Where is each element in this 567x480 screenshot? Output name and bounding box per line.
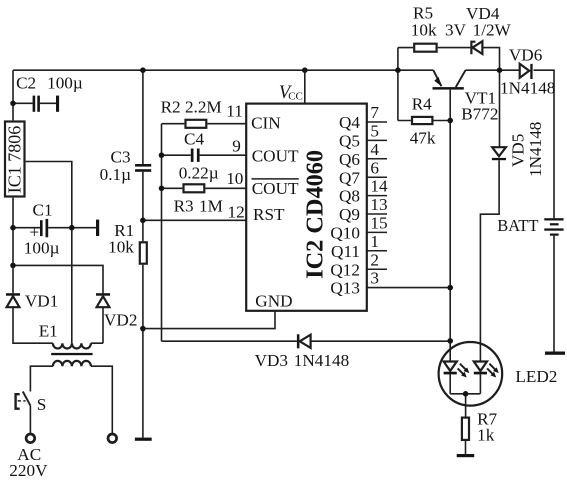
svg-text:10: 10 [226, 169, 243, 188]
voltage regulator IC1 7806 [5, 122, 25, 197]
zener diode VD4 [445, 4, 512, 54]
core [51, 353, 92, 355]
wire left rail upper [12, 70, 14, 120]
svg-text:Q12: Q12 [330, 260, 360, 279]
transformer E1 [39, 322, 93, 367]
wire C2 branch [13, 102, 56, 104]
wire R4 line [398, 120, 450, 122]
wire oscillator rail [161, 124, 163, 342]
svg-text:10k: 10k [411, 20, 437, 39]
svg-text:1N4148: 1N4148 [294, 351, 349, 370]
wire R2 line pin 11 [162, 123, 247, 125]
svg-text:IC1 7806: IC1 7806 [5, 126, 25, 194]
svg-text:C3: C3 [111, 148, 131, 167]
svg-text:5: 5 [370, 122, 379, 141]
LED element A [444, 362, 457, 371]
svg-text:1k: 1k [477, 426, 495, 445]
svg-text:1N4148: 1N4148 [500, 79, 555, 98]
svg-text:47k: 47k [410, 129, 436, 148]
wire VD6 to battery corner [534, 70, 555, 218]
svg-text:15: 15 [370, 214, 387, 233]
resistor R3 [174, 184, 223, 215]
wire R5 zener branch [398, 48, 500, 71]
svg-text:VD3: VD3 [255, 351, 288, 370]
svg-text:6: 6 [370, 158, 379, 177]
wire rectifier link [13, 265, 103, 293]
LED B arrows [489, 364, 495, 370]
wire VD5 branch [480, 70, 499, 361]
svg-text:VD6: VD6 [509, 46, 543, 65]
svg-text:Q9: Q9 [339, 205, 360, 224]
LED A arrows [460, 364, 466, 370]
diode VD5 [492, 122, 545, 177]
svg-text:B772: B772 [461, 105, 498, 124]
terminal left [26, 434, 35, 443]
svg-text:4: 4 [370, 140, 379, 159]
wire Vcc drop [304, 70, 306, 103]
svg-text:COUT: COUT [252, 147, 299, 166]
output pin stubs Q4-Q12 [367, 122, 387, 269]
pin labels Q4..Q13 [330, 113, 360, 298]
diode VD3 [255, 334, 350, 370]
wire C1 line [13, 227, 96, 229]
wire battery to ground [553, 236, 555, 352]
resistor R1 [108, 221, 147, 264]
svg-text:1M: 1M [199, 197, 223, 216]
svg-text:0.1µ: 0.1µ [100, 165, 131, 184]
wire C4 line pin 9 [162, 154, 247, 156]
svg-text:Q6: Q6 [339, 150, 360, 169]
pin numbers 7 5 4 6 14 13 15 1 2 3 [370, 103, 388, 288]
ground R7 [457, 454, 475, 457]
pin COUT-bar [252, 179, 299, 198]
wire VD1 to winding [13, 307, 53, 343]
svg-text:220V: 220V [9, 461, 48, 480]
capacitor C4 [179, 130, 219, 183]
capacitor C1 [24, 201, 99, 258]
svg-text:IC2 CD4060: IC2 CD4060 [301, 150, 328, 279]
wire collector to VD6 [466, 69, 520, 71]
svg-text:12: 12 [228, 202, 245, 221]
svg-text:E1: E1 [39, 322, 58, 341]
svg-text:Q10: Q10 [330, 224, 360, 243]
wire R4 rail [397, 48, 399, 121]
diode VD2 [96, 293, 137, 329]
svg-text:0.22µ: 0.22µ [179, 163, 219, 182]
svg-text:VD1: VD1 [25, 292, 58, 311]
svg-text:C4: C4 [184, 130, 204, 149]
diode VD1 [6, 292, 58, 311]
svg-text:1: 1 [370, 232, 379, 251]
ground left column [135, 438, 152, 441]
wire R3 line pin 10 [162, 187, 247, 189]
svg-text:GND: GND [255, 291, 292, 310]
svg-text:VD5: VD5 [509, 134, 528, 167]
svg-text:VD2: VD2 [104, 310, 137, 329]
capacitor C2 [16, 74, 83, 112]
resistor R5 [411, 4, 437, 52]
wire left rail lower [12, 198, 14, 294]
node Vcc label [279, 83, 303, 103]
svg-text:RST: RST [253, 205, 285, 224]
resistor R4 [410, 94, 436, 147]
LED element B [474, 362, 487, 371]
switch S [16, 392, 47, 415]
capacitor C3 [100, 148, 152, 184]
svg-text:Q4: Q4 [339, 113, 360, 132]
svg-text:C1: C1 [33, 201, 53, 220]
LED2 dual LED [439, 342, 558, 406]
svg-text:BATT: BATT [497, 216, 538, 235]
resistor R7 [462, 409, 498, 444]
svg-text:100µ: 100µ [47, 74, 83, 93]
wire GND pin to ground column [143, 311, 275, 329]
svg-text:C2: C2 [16, 74, 36, 93]
svg-text:2: 2 [370, 250, 379, 269]
terminal right [108, 434, 117, 443]
svg-text:LED2: LED2 [515, 367, 557, 386]
wire switch to terminal [29, 406, 31, 434]
wire primary leads [30, 366, 112, 433]
label AC 220V [9, 445, 48, 480]
wire top rail [13, 69, 433, 71]
svg-text:3V: 3V [445, 21, 467, 40]
primary winding [53, 361, 91, 366]
wire VT1 base column to LED [449, 90, 451, 362]
svg-text:14: 14 [370, 177, 388, 196]
svg-text:CIN: CIN [251, 113, 281, 132]
svg-text:Q11: Q11 [331, 242, 360, 261]
svg-text:Q7: Q7 [339, 168, 360, 187]
ground battery [545, 352, 565, 355]
wire R7 to ground [465, 441, 467, 454]
svg-text:R2 2.2M: R2 2.2M [161, 98, 222, 117]
svg-text:R3: R3 [174, 197, 194, 216]
wire IC1 output to transformer center tap [26, 162, 72, 344]
svg-text:13: 13 [370, 195, 387, 214]
wire VD3 line [162, 340, 451, 342]
svg-text:R4: R4 [412, 94, 432, 113]
svg-text:Q8: Q8 [339, 187, 360, 206]
diode VD6 [500, 46, 555, 98]
svg-text:9: 9 [232, 136, 241, 155]
svg-text:Q13: Q13 [330, 279, 360, 298]
svg-text:Q5: Q5 [339, 132, 360, 151]
svg-text:COUT: COUT [252, 179, 299, 198]
svg-text:CC: CC [288, 91, 303, 103]
wire RST line pin 12 [143, 219, 246, 221]
wire Q13 pin 3 output [367, 287, 450, 289]
svg-text:100µ: 100µ [24, 239, 60, 258]
svg-text:3: 3 [370, 269, 379, 288]
transistor VT1 B772 [433, 70, 499, 124]
resistor R2 [161, 98, 222, 128]
wire LED cathodes to R7 [450, 374, 480, 416]
svg-text:10k: 10k [108, 237, 134, 256]
battery BATT [497, 216, 563, 236]
svg-text:7: 7 [370, 103, 379, 122]
svg-text:1N4148: 1N4148 [526, 122, 545, 177]
wire C3 R1 ground column [142, 70, 144, 437]
IC2 CD4060 box [246, 104, 367, 311]
svg-text:S: S [37, 395, 47, 414]
secondary winding [53, 343, 91, 348]
wire VD2 to winding [91, 307, 103, 343]
svg-text:1/2W: 1/2W [473, 21, 512, 40]
svg-text:11: 11 [226, 101, 243, 120]
